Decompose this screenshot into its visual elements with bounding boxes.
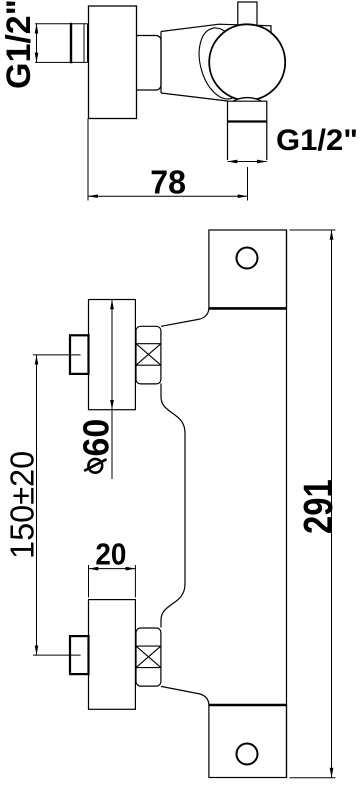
dimension G1/2 (left) [36, 24, 38, 63]
dimension G1/2 (pipe width) [228, 161, 267, 163]
connector between plate and body [133, 36, 161, 91]
svg-text:291: 291 [294, 479, 340, 534]
svg-text:G1/2": G1/2" [0, 0, 38, 89]
dimension 78 [88, 119, 248, 201]
body profile upper curve [161, 309, 209, 327]
cone end ellipse (behind knob circle) [192, 23, 251, 104]
outlet pipe (bottom, G1/2) [228, 101, 267, 160]
top valve coupling with hatch [136, 326, 161, 384]
svg-text:150±20: 150±20 [3, 451, 41, 559]
wall plate [89, 6, 137, 119]
bottom valve coupling with hatch [136, 628, 161, 686]
pipe-knob intersection fillet [233, 98, 261, 105]
svg-text:78: 78 [150, 163, 186, 201]
bottom mounting plate [209, 705, 287, 778]
temperature knob circle [209, 24, 285, 100]
body profile lower curve [161, 686, 209, 704]
body cone outline [161, 24, 271, 101]
svg-text:20: 20 [95, 537, 126, 572]
top valve fitting [70, 335, 89, 374]
dimension 20 [89, 565, 136, 597]
svg-text:60: 60 [76, 419, 116, 457]
top mounting plate [209, 230, 287, 308]
body profile middle column [161, 383, 185, 627]
inlet fitting (hex nut, side) [35, 23, 88, 64]
dimension 150±20 [33, 355, 81, 655]
bottom valve fitting [70, 636, 89, 674]
dimension phi60 [111, 300, 113, 480]
label phi60 [76, 419, 116, 473]
bottom valve body [89, 600, 136, 710]
dimension 291 [290, 230, 336, 778]
svg-text:G1/2": G1/2" [276, 124, 358, 157]
top diverter knob [238, 2, 257, 26]
top valve body [89, 300, 136, 410]
body bar right edge [286, 230, 288, 778]
